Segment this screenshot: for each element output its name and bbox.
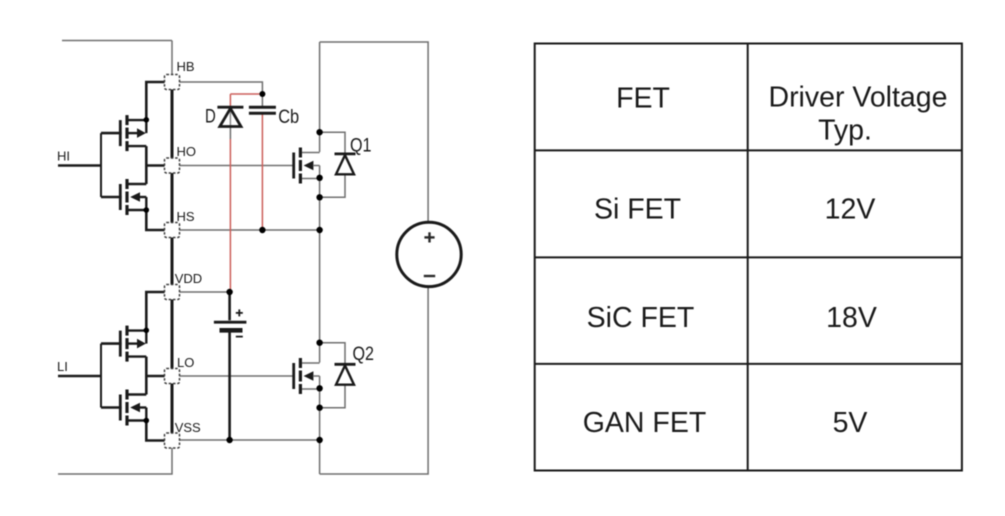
svg-text:18V: 18V	[826, 302, 877, 334]
svg-text:GAN FET: GAN FET	[583, 407, 707, 439]
svg-text:Driver Voltage: Driver Voltage	[768, 82, 947, 114]
svg-text:VDD: VDD	[175, 271, 202, 286]
svg-text:12V: 12V	[825, 194, 876, 226]
svg-text:HI: HI	[57, 149, 70, 164]
svg-text:5V: 5V	[833, 407, 868, 439]
svg-text:D: D	[205, 107, 216, 128]
svg-text:HO: HO	[177, 144, 197, 159]
svg-text:LO: LO	[177, 355, 194, 370]
svg-text:HB: HB	[177, 59, 195, 74]
svg-text:SiC FET: SiC FET	[587, 302, 695, 334]
svg-text:Q1: Q1	[350, 136, 372, 157]
svg-text:Cb: Cb	[278, 107, 299, 128]
svg-text:HS: HS	[177, 209, 195, 224]
svg-text:LI: LI	[57, 359, 68, 374]
svg-text:VSS: VSS	[175, 420, 201, 435]
svg-text:Q2: Q2	[353, 344, 375, 365]
svg-text:FET: FET	[616, 83, 670, 115]
svg-text:Typ.: Typ.	[818, 115, 872, 147]
svg-text:Si FET: Si FET	[594, 194, 681, 226]
